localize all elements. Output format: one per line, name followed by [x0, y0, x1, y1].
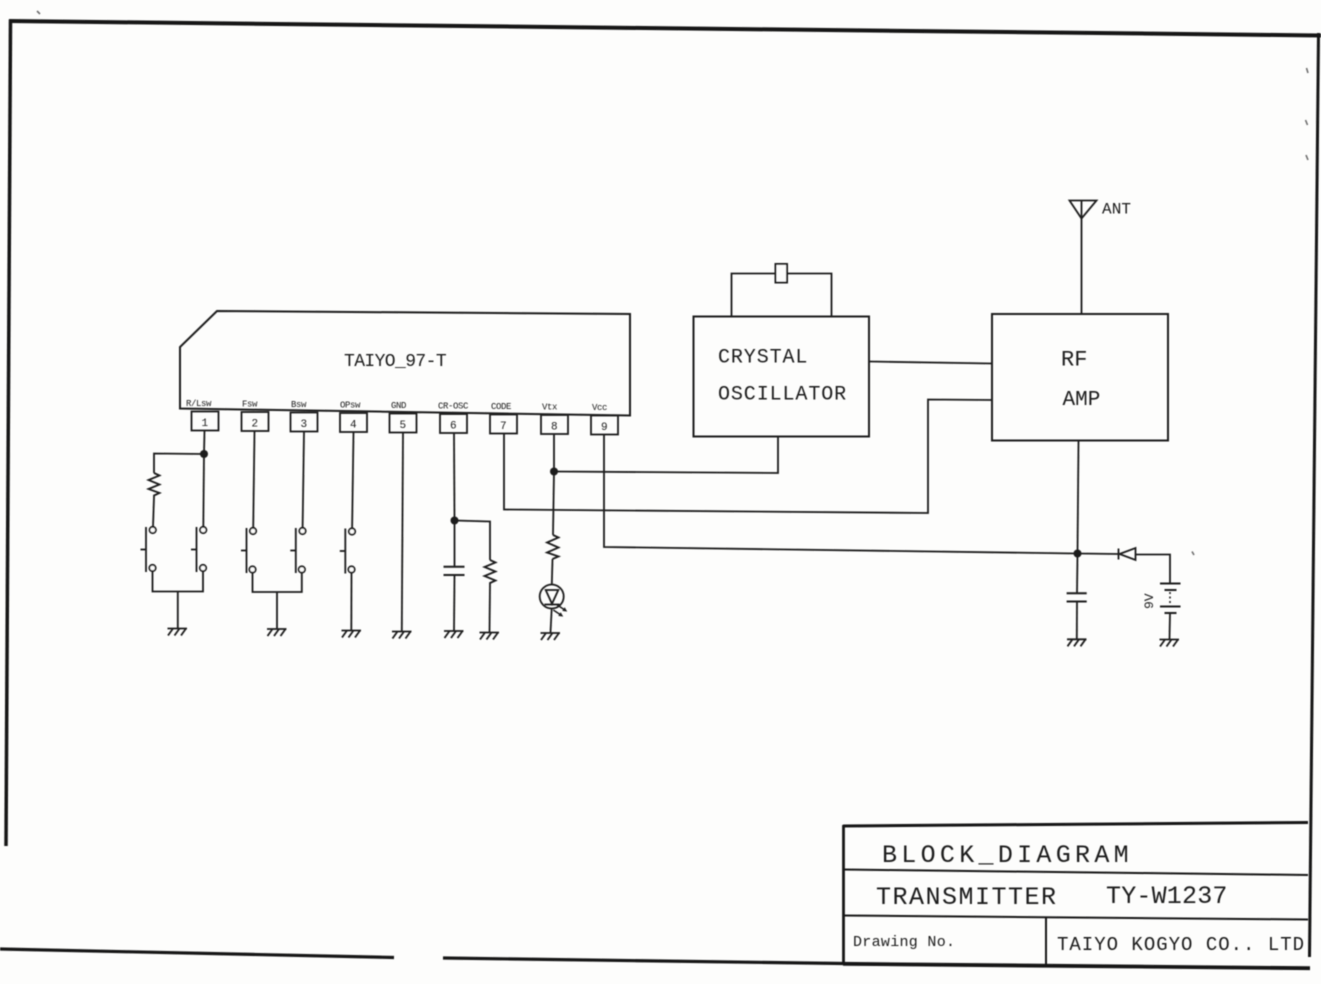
svg-text:CODE: CODE — [491, 402, 511, 412]
svg-text:2: 2 — [252, 419, 259, 431]
svg-text:Fsw: Fsw — [242, 400, 258, 410]
svg-text:TRANSMITTER: TRANSMITTER — [876, 883, 1058, 912]
pin 7 CODE — [490, 402, 517, 434]
svg-text:CRYSTAL: CRYSTAL — [718, 347, 808, 370]
svg-text:CR-OSC: CR-OSC — [438, 402, 469, 412]
wire diode to battery BT1 — [1136, 555, 1171, 584]
svg-text:7: 7 — [500, 421, 507, 433]
svg-text:3: 3 — [301, 419, 308, 431]
crystal X1 — [776, 264, 788, 283]
ground (SW5) — [342, 631, 362, 638]
pin 2 Fsw — [242, 400, 269, 432]
wire node B down to capacitor C1 — [454, 521, 456, 567]
svg-text:R/Lsw: R/Lsw — [186, 399, 212, 409]
switch SW2 (push button) — [191, 527, 206, 572]
svg-text:AMP: AMP — [1063, 389, 1101, 412]
wire pin2 to switch SW3 — [253, 431, 254, 528]
svg-text:4: 4 — [350, 420, 357, 432]
svg-text:1: 1 — [202, 418, 209, 430]
pin 9 Vcc — [591, 403, 618, 435]
wire RF AMP bottom to node D — [1078, 441, 1079, 554]
wire R3 to LED D1 — [551, 559, 554, 585]
capacitor C1 — [444, 567, 465, 575]
pin 8 Vtx — [541, 403, 568, 435]
wire pin5 GND to ground — [402, 433, 403, 632]
ground (SW3/SW4) — [267, 629, 287, 636]
resistor R1 — [149, 473, 160, 497]
switch SW4 (push button) — [290, 528, 305, 573]
wire C2 to ground — [1076, 602, 1078, 639]
wire node D to diode D2 — [1078, 553, 1119, 556]
capacitor C2 — [1067, 593, 1087, 601]
node B junction dot (pin6) — [451, 517, 459, 525]
svg-text:TAIYO KOGYO CO.. LTD: TAIYO KOGYO CO.. LTD — [1057, 934, 1305, 956]
wire LED to ground — [551, 609, 552, 633]
wire pin1 down to node A — [203, 431, 206, 455]
wire crystal oscillator to RF AMP — [869, 362, 992, 364]
wire node B right and down to resistor R2 — [455, 521, 491, 561]
wire pin9 Vcc to node D — [604, 435, 1078, 554]
node D junction dot — [1074, 550, 1082, 558]
pin 1 R/Lsw — [186, 399, 219, 431]
wire C1 to ground — [453, 575, 456, 631]
IC U1 TAIYO_97-T — [180, 311, 630, 416]
svg-text:6: 6 — [450, 421, 457, 433]
LED D1 — [540, 585, 568, 617]
wire R2 to ground — [489, 584, 492, 632]
wire pin6 down to node B — [453, 433, 456, 521]
switch SW5 (push button) — [340, 528, 355, 573]
svg-text:OPsw: OPsw — [340, 401, 361, 411]
wire node A left and down to resistor R1 — [154, 454, 204, 474]
wire node D down to capacitor C2 — [1076, 554, 1079, 594]
svg-text:TY-W1237: TY-W1237 — [1106, 882, 1228, 911]
pin 5 GND — [390, 401, 417, 433]
ground (R2) — [480, 633, 500, 640]
svg-text:ANT: ANT — [1102, 201, 1131, 219]
svg-text:5: 5 — [400, 420, 407, 432]
ground (LED) — [541, 633, 561, 640]
wire pin7 CODE to RF AMP — [504, 400, 992, 514]
wire crystal loop — [732, 274, 832, 317]
ground (C2) — [1067, 639, 1087, 646]
wire SW3/SW4 commons to ground — [253, 573, 302, 629]
ground (C1) — [444, 631, 464, 638]
ground (pin5) — [392, 632, 412, 639]
svg-text:TAIYO_97-T: TAIYO_97-T — [344, 352, 447, 372]
svg-text:Drawing No.: Drawing No. — [853, 934, 955, 951]
svg-text:RF: RF — [1061, 348, 1087, 373]
wire node C to crystal oscillator bottom — [554, 437, 778, 473]
pin 4 OPsw — [340, 401, 367, 433]
wire node C down to resistor R3 — [553, 472, 554, 536]
svg-text:9V: 9V — [1142, 593, 1157, 609]
battery BT1 9V — [1142, 584, 1181, 614]
svg-text:OSCILLATOR: OSCILLATOR — [718, 384, 847, 407]
RF AMP block — [992, 314, 1168, 441]
wire SW5 to ground — [350, 573, 352, 630]
switch SW1 (push button) — [141, 527, 156, 572]
wire pin8 down to node C — [553, 434, 555, 472]
diode D2 — [1119, 548, 1136, 560]
resistor R2 — [485, 560, 496, 584]
wire SW1/SW2 commons to ground — [153, 571, 204, 628]
switch SW3 (push button) — [241, 528, 256, 573]
resistor R3 — [547, 535, 559, 559]
svg-text:GND: GND — [391, 401, 406, 411]
ground (battery) — [1160, 640, 1180, 647]
wire RF AMP to antenna — [1081, 217, 1083, 314]
pin 3 Bsw — [291, 400, 318, 432]
svg-text:Vcc: Vcc — [592, 403, 607, 413]
wire node A down to switch SW2 — [202, 454, 205, 527]
svg-text:BLOCK_DIAGRAM: BLOCK_DIAGRAM — [882, 841, 1133, 870]
node A junction dot (pin1) — [200, 450, 208, 458]
svg-text:8: 8 — [551, 422, 558, 434]
wire R1 to switch SW1 — [153, 497, 154, 527]
wire pin3 to switch SW4 — [303, 432, 304, 529]
wire pin4 to switch SW5 — [352, 432, 353, 529]
node C junction dot (pin8 Vtx) — [550, 468, 558, 476]
svg-text:9: 9 — [601, 422, 608, 434]
CRYSTAL OSCILLATOR block — [694, 317, 870, 437]
svg-text:Bsw: Bsw — [291, 400, 307, 410]
pin 6 CR-OSC — [438, 402, 469, 434]
wire battery to ground — [1169, 613, 1172, 639]
ground (SW1/SW2) — [168, 629, 188, 636]
antenna ANT — [1070, 201, 1132, 219]
svg-text:Vtx: Vtx — [542, 403, 557, 413]
